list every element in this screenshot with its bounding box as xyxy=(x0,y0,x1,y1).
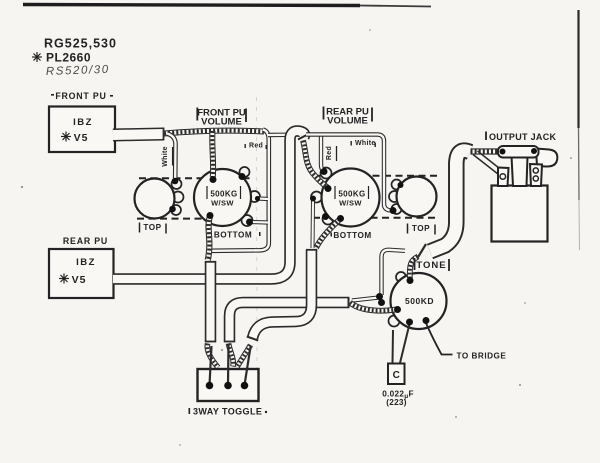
braid to front volume top terminal xyxy=(209,131,216,177)
title PL2660 with star xyxy=(32,51,91,65)
wire to toggle left (thick vertical) xyxy=(205,262,216,342)
svg-text:White: White xyxy=(162,146,169,167)
svg-text:IBZ: IBZ xyxy=(76,257,96,268)
svg-text:REAR PU: REAR PU xyxy=(63,236,108,246)
toggle terminal dots xyxy=(206,382,249,390)
front volume top view ears xyxy=(171,179,184,215)
svg-text:V5: V5 xyxy=(74,132,89,144)
front volume top view circle xyxy=(135,179,175,219)
output jack plug barrel xyxy=(498,146,539,158)
wire front PU output xyxy=(113,128,164,141)
svg-text:V5: V5 xyxy=(72,274,87,286)
braid toggle middle pin xyxy=(229,344,234,367)
label 0.022uF (223) xyxy=(382,390,414,408)
wire red drop front (to pot lugs and down) xyxy=(212,130,269,251)
svg-text:TOP: TOP xyxy=(143,223,161,232)
label 3WAY TOGGLE xyxy=(189,407,268,417)
wire White drop to front top view xyxy=(167,134,176,179)
tone pot ears xyxy=(389,272,407,327)
rear volume pot ears xyxy=(311,168,334,225)
svg-text:(223): (223) xyxy=(386,398,407,407)
label TOP front xyxy=(140,223,167,234)
fold line artifact xyxy=(256,97,259,390)
label REAR PU VOLUME xyxy=(324,107,373,127)
braid front PU to volume pots xyxy=(164,131,264,134)
wire rear PU output run xyxy=(113,131,309,279)
rear volume pot 500KG circle xyxy=(322,169,380,227)
rear volume dashed outline xyxy=(313,176,437,218)
rear volume top view circle xyxy=(397,177,437,217)
svg-text:TOP: TOP xyxy=(412,224,430,233)
right page edge line xyxy=(579,10,580,250)
tone pot 500KD circle xyxy=(391,273,447,329)
thin run from arch cap to white drop xyxy=(306,135,390,211)
svg-text:OUTPUT JACK: OUTPUT JACK xyxy=(489,132,557,142)
top border line xyxy=(23,5,431,7)
thin wire front red bend to rear arch xyxy=(268,133,286,138)
wire red drop rear xyxy=(321,135,324,171)
front volume pot 500KG circle xyxy=(194,169,251,226)
front volume dashed outline xyxy=(137,178,253,218)
capacitor C xyxy=(388,324,410,384)
output jack T shaft xyxy=(512,156,528,186)
svg-text:BOTTOM: BOTTOM xyxy=(333,231,371,240)
front pickup box IBZ V5 xyxy=(49,107,115,153)
svg-text:FRONT PU: FRONT PU xyxy=(55,91,106,101)
svg-text:RG525,530: RG525,530 xyxy=(44,37,117,51)
svg-text:W/SW: W/SW xyxy=(211,199,234,208)
wire stub to front pot lower-right lug xyxy=(251,220,268,225)
toggle switch box xyxy=(198,369,259,401)
braid toggle left pin xyxy=(207,344,218,368)
terminal dots tone pot xyxy=(376,277,430,326)
label Red (front) xyxy=(245,143,267,150)
svg-text:White: White xyxy=(355,140,376,147)
svg-text:Red: Red xyxy=(326,146,333,160)
svg-text:RS520/30: RS520/30 xyxy=(46,64,110,78)
output jack right lug xyxy=(530,164,542,186)
toggle pin wires xyxy=(210,344,251,385)
braid rear pot bottom to hook wire xyxy=(316,219,340,248)
thin riser tone junction to jack wire xyxy=(382,250,406,295)
svg-text:BOTTOM: BOTTOM xyxy=(214,231,252,240)
to bridge pointer xyxy=(426,323,506,361)
output jack body plate xyxy=(492,186,548,242)
svg-text:W/SW: W/SW xyxy=(339,199,362,208)
svg-text:C: C xyxy=(393,370,400,381)
thin wires braid to jack lug xyxy=(473,151,504,176)
svg-text:500KG: 500KG xyxy=(210,190,237,199)
label OUTPUT JACK xyxy=(486,132,557,143)
label TONE xyxy=(415,258,450,271)
wire toggle middle to tone (thick) xyxy=(224,297,349,342)
label Red (rear, vertical) xyxy=(326,146,337,161)
rear pickup box IBZ V5 xyxy=(49,249,114,298)
svg-text:PL2660: PL2660 xyxy=(46,51,91,65)
braid arch cap to rear pot terminal xyxy=(303,141,328,188)
braid toggle mid wire to tone left xyxy=(350,303,396,311)
output jack right arm xyxy=(536,149,557,167)
terminal dots front volume xyxy=(169,173,260,226)
braid front pot bottom terminal down xyxy=(208,216,210,260)
wire rear pot lug drop xyxy=(311,200,316,248)
wire stub to front pot right lug xyxy=(258,196,268,201)
jack U wire (thick) xyxy=(418,151,471,258)
wire rear pot bottom to toggle right (J hook) xyxy=(247,250,317,341)
svg-text:500KD: 500KD xyxy=(405,296,434,306)
rear volume top view ears xyxy=(389,180,402,215)
front volume pot ears xyxy=(240,167,261,226)
svg-text:500KG: 500KG xyxy=(338,190,365,199)
svg-text:TONE: TONE xyxy=(416,260,446,271)
thin wire run cap to tone junction xyxy=(352,298,379,301)
svg-text:VOLUME: VOLUME xyxy=(327,116,368,127)
svg-text:3WAY TOGGLE: 3WAY TOGGLE xyxy=(193,407,262,417)
label FRONT PU xyxy=(51,91,113,101)
svg-text:IBZ: IBZ xyxy=(73,117,93,128)
label TOP rear xyxy=(408,224,436,235)
svg-text:TO BRIDGE: TO BRIDGE xyxy=(457,352,507,361)
label FRONT PU VOLUME xyxy=(197,108,246,128)
svg-text:Red: Red xyxy=(249,143,263,150)
output jack left lug xyxy=(498,168,509,187)
terminal dots rear volume xyxy=(310,168,404,222)
svg-text:VOLUME: VOLUME xyxy=(201,117,242,128)
braid toggle right pin xyxy=(237,345,251,367)
terminal dots jack xyxy=(500,148,538,155)
braid jack wire to tone top xyxy=(410,257,418,279)
braid jack plug xyxy=(471,148,500,154)
label White (rear) xyxy=(351,140,376,147)
